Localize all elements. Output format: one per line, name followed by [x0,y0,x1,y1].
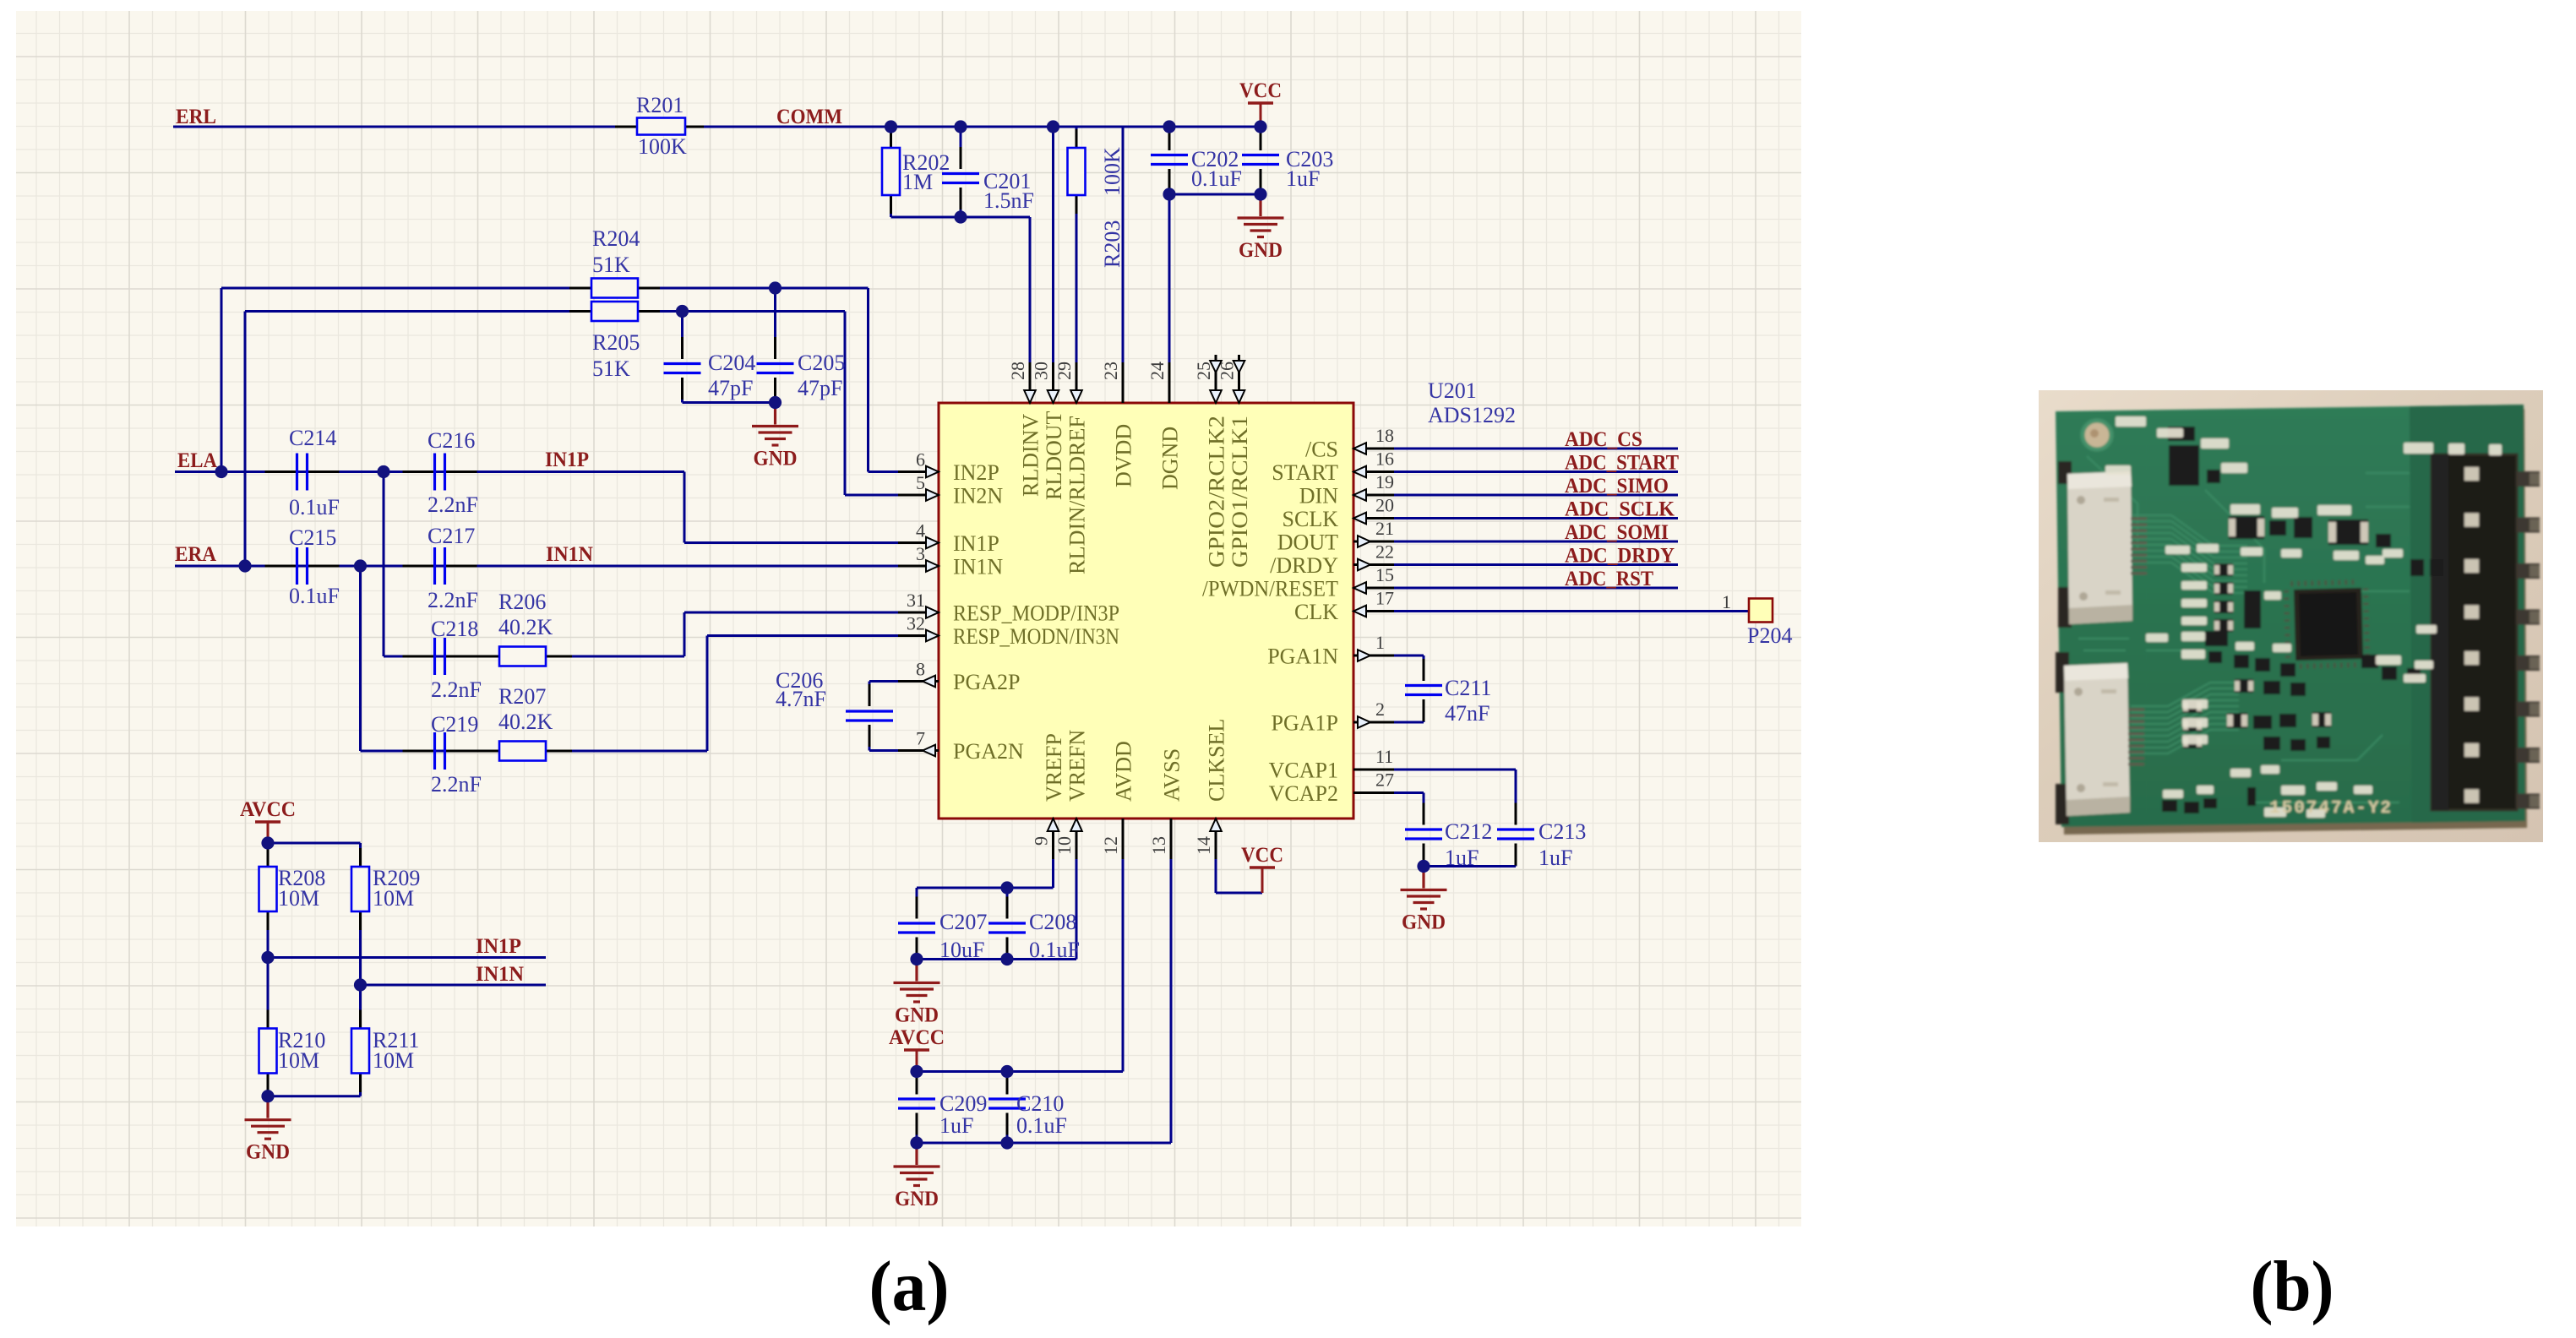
wire AVCC top link [268,842,361,845]
wire ADC_SIMO [1390,494,1678,497]
wire C202 to pin24 [1168,169,1171,403]
svg-text:31: 31 [907,590,925,611]
wire VREFP rail [917,887,1054,889]
wire C206 top lead [869,682,871,707]
resistor R203 100K [1068,148,1086,195]
resistor R202 1M [882,148,900,195]
mounting hole [2083,421,2111,449]
svg-text:VCC: VCC [1241,844,1283,867]
svg-text:40.2K: 40.2K [498,615,553,639]
wire VREFN rail [917,958,1076,960]
svg-text:1: 1 [1375,632,1385,653]
svg-text:1uF: 1uF [939,1113,973,1138]
wire C203 bottom lead [1260,169,1262,194]
wire pin14 drop [1215,819,1217,893]
wire ADC_SOMI [1390,541,1678,543]
svg-text:C219: C219 [431,712,478,737]
wire R204 drop to IN2P [867,288,869,472]
svg-text:C213: C213 [1539,819,1586,844]
FPC connector (top-left) [2058,461,2072,484]
svg-text:15: 15 [1375,564,1394,585]
resistor R205 51K [591,302,638,321]
wire C208 top lead [1006,888,1009,919]
svg-text:19: 19 [1375,471,1394,492]
wire pin7 entry [869,749,903,752]
svg-text:GND: GND [895,1004,939,1027]
svg-text:26: 26 [1217,362,1238,380]
resistor R206 40.2K [499,647,546,666]
svg-text:51K: 51K [592,356,630,381]
wire R210 bottom lead [267,1074,270,1096]
capacitor C202 0.1uF [1151,155,1188,165]
schematic sheet background [16,11,1801,1226]
ground GND (C209) [894,1143,940,1186]
ground GND (C204/C205) [752,403,798,446]
svg-text:25: 25 [1193,362,1214,380]
svg-text:11: 11 [1375,746,1393,767]
svg-text:1uF: 1uF [1539,846,1572,870]
svg-text:GND: GND [246,1141,290,1164]
wire C206 bottom lead [869,725,871,751]
wire R208 top lead [267,843,270,867]
svg-text:PGA2P: PGA2P [953,670,1020,694]
svg-text:SCLK: SCLK [1283,507,1339,531]
svg-text:0.1uF: 0.1uF [289,584,340,608]
wire pin11 to C213 [1390,769,1516,771]
svg-text:VCAP1: VCAP1 [1269,759,1338,783]
wire C205 bottom lead [774,378,776,403]
svg-text:DGND: DGND [1158,427,1183,490]
svg-text:ELA: ELA [177,449,217,472]
svg-text:0.1uF: 0.1uF [1191,166,1242,191]
wire pin8 entry [869,680,903,683]
svg-text:16: 16 [1375,449,1394,470]
svg-text:GPIO1/RCLK1: GPIO1/RCLK1 [1228,416,1252,568]
svg-text:ERL: ERL [176,106,216,128]
resistor R208 10M [259,867,277,911]
wire C213 top lead [1515,770,1517,825]
svg-text:40.2K: 40.2K [498,710,553,734]
svg-text:AVCC: AVCC [240,798,296,821]
svg-text:RLDOUT: RLDOUT [1042,411,1066,500]
capacitor C210 0.1uF [988,1099,1026,1108]
capacitor C215 0.1uF [297,547,308,585]
capacitor C214 0.1uF [297,454,308,491]
wire R208 bottom lead [267,911,270,958]
svg-text:IN1N: IN1N [546,543,593,566]
wire pin31 entry [684,612,903,614]
capacitor C219 2.2nF [435,732,445,770]
wire ADC_START [1390,470,1678,473]
wire C213 bottom lead [1515,844,1517,867]
svg-text:COMM: COMM [776,106,842,128]
main IC chip (on PCB) [2284,579,2371,670]
svg-text:0.1uF: 0.1uF [1016,1113,1067,1138]
svg-text:10uF: 10uF [939,938,984,962]
wire C204-C205 gnd link [683,401,776,404]
wire C201 top lead [960,127,962,169]
svg-text:1.5nF: 1.5nF [983,188,1034,213]
svg-text:(a): (a) [869,1247,950,1326]
svg-text:C218: C218 [431,617,478,641]
connector pad P204 [1749,599,1773,623]
svg-text:R206: R206 [498,590,546,614]
junction dots [885,120,897,133]
svg-text:RLDINV: RLDINV [1019,414,1043,497]
wire IN1N tap [361,984,547,987]
svg-text:ADC_SOMI: ADC_SOMI [1565,521,1669,544]
svg-text:GND: GND [1239,239,1283,262]
power VCC CLKSEL [1250,866,1275,868]
pin header (right) [2432,454,2517,810]
silkscreen markings [2105,416,2502,818]
svg-text:23: 23 [1100,362,1121,380]
svg-text:3: 3 [916,543,925,564]
wire R205 row right [638,310,845,313]
wire IN1P tap [268,956,546,959]
svg-text:GND: GND [895,1188,939,1210]
svg-text:C216: C216 [428,428,475,453]
svg-text:IN1P: IN1P [476,935,521,958]
wire R202 bottom [890,195,892,217]
svg-text:PGA2N: PGA2N [953,739,1024,764]
svg-text:R204: R204 [592,226,640,251]
svg-text:AVSS: AVSS [1160,748,1185,802]
wire C210 top lead [1006,1072,1009,1095]
svg-text:VCAP2: VCAP2 [1269,781,1338,806]
wire C210 bottom lead [1006,1113,1009,1144]
power AVCC (divider) [267,823,270,843]
svg-text:0.1uF: 0.1uF [1029,938,1080,962]
wire pin27 to C212 [1390,791,1424,794]
resistor R201 100K [637,118,685,135]
svg-text:IN1N: IN1N [476,963,524,986]
resistor R204 51K [591,279,638,298]
svg-text:47nF: 47nF [1445,701,1490,726]
wire C218 row [384,655,684,658]
wire C207 top lead [916,888,918,919]
svg-text:47pF: 47pF [708,376,753,400]
svg-text:ADC_DRDY: ADC_DRDY [1565,545,1675,568]
svg-text:C205: C205 [798,351,845,375]
svg-text:C211: C211 [1445,676,1491,700]
capacitor C208 0.1uF [988,923,1026,933]
wire R209 top lead [359,843,362,867]
svg-text:2.2nF: 2.2nF [431,772,482,797]
svg-text:10: 10 [1054,836,1075,855]
svg-text:(b): (b) [2251,1247,2334,1326]
svg-text:29: 29 [1054,362,1075,380]
svg-text:100K: 100K [638,134,687,159]
svg-text:14: 14 [1193,836,1214,855]
svg-text:10M: 10M [373,886,414,911]
wire pin28 drop [1029,217,1032,403]
wire CLK to P204 [1390,610,1749,612]
svg-text:10M: 10M [373,1048,414,1073]
wire C209 top lead [916,1072,918,1095]
wire C211 top lead [1423,655,1425,681]
wire R202 top [890,127,892,148]
resistor R209 10M [351,867,369,911]
svg-text:2.2nF: 2.2nF [428,588,478,612]
svg-text:AVDD: AVDD [1112,741,1136,802]
svg-text:RESP_MODP/IN3P: RESP_MODP/IN3P [953,601,1119,626]
svg-text:R203: R203 [1100,220,1125,268]
wire pin32 entry [707,634,903,637]
power VCC top [1248,101,1273,104]
svg-text:2.2nF: 2.2nF [428,492,478,517]
wire pin12 drop [1122,819,1125,1072]
wire ADC_SCLK [1390,517,1678,519]
wire pin6 entry [869,470,904,473]
svg-text:18: 18 [1375,425,1394,446]
wire C201 bottom lead [960,188,962,217]
wire C212 top lead [1423,793,1425,825]
IC pin stubs [898,355,1394,859]
wire IN1P to pin4 [684,541,903,544]
wire pin23 drop [1122,127,1125,403]
wire R209 bottom lead [359,911,362,985]
svg-text:C217: C217 [428,524,475,548]
wire R207 rise to pin32 [706,636,709,752]
svg-text:5: 5 [916,472,925,493]
wire C212 bottom lead [1423,844,1425,867]
svg-text:DOUT: DOUT [1277,530,1338,555]
svg-text:IN1N: IN1N [953,555,1003,579]
svg-text:12: 12 [1100,836,1121,855]
resistor R211 10M [351,1029,369,1074]
svg-text:/PWDN/RESET: /PWDN/RESET [1202,577,1338,601]
svg-text:START: START [1272,460,1338,485]
wire AVSS rail [917,1142,1171,1145]
svg-text:7: 7 [916,728,925,749]
svg-text:30: 30 [1031,362,1052,380]
capacitor C205 47pF [757,364,794,373]
svg-text:/DRDY: /DRDY [1270,553,1338,578]
wire R205 drop to IN2N [844,312,847,496]
svg-text:ADC_RST: ADC_RST [1565,568,1653,590]
svg-text:GND: GND [1402,911,1446,934]
svg-text:32: 32 [907,613,925,634]
FPC connector (bottom-left) [2056,652,2069,693]
svg-text:10M: 10M [278,886,319,911]
wire ADC_RST [1390,587,1678,590]
capacitor C203 1uF [1242,155,1279,165]
svg-text:1uF: 1uF [1286,166,1320,191]
svg-text:P204: P204 [1747,623,1792,648]
power AVCC (decoupling) [916,1051,918,1072]
capacitor C207 10uF [898,923,935,933]
svg-text:8: 8 [916,659,925,680]
wire C211 bottom lead [1423,699,1425,722]
wire ELA drop to C218 [383,472,385,657]
wire ELA row [175,470,684,473]
svg-text:VREFP: VREFP [1042,733,1066,802]
svg-text:RESP_MODN/IN3N: RESP_MODN/IN3N [953,624,1119,649]
svg-text:4.7nF: 4.7nF [776,687,826,711]
wire R206 rise to pin31 [683,612,686,656]
svg-text:ERA: ERA [175,543,216,566]
power AVCC divider [255,820,280,823]
capacitor C217 2.2nF [435,547,445,585]
wire R203 to pin29 [1076,195,1078,403]
capacitor C212 1uF [1405,829,1442,839]
capacitor C201 1.5nF [942,174,979,183]
wire ADC_CS [1390,448,1678,450]
wire C207 bottom lead [916,938,918,960]
svg-text:VREFN: VREFN [1065,730,1090,802]
svg-text:C209: C209 [939,1091,987,1116]
svg-text:IN1P: IN1P [545,449,589,471]
wire pin10 drop [1076,819,1078,960]
wire C219 row [361,750,708,753]
wire R211 bottom lead [359,1074,362,1096]
svg-text:150747A-Y2: 150747A-Y2 [2269,799,2393,819]
wire C209 bottom lead [916,1113,918,1144]
svg-text:AVCC: AVCC [889,1026,945,1049]
wire R211 top lead [359,985,362,1029]
svg-text:C204: C204 [708,351,755,375]
wire ERL-COMM-VCC rail [173,126,1261,128]
wire C202 top lead [1168,127,1171,150]
svg-text:ADC_START: ADC_START [1565,452,1679,475]
component lead segments (black) [265,127,1517,1135]
wire pin2 to C211 [1390,721,1424,724]
ground GND (C212/C213) [1401,867,1447,910]
svg-text:17: 17 [1375,588,1394,609]
svg-text:CLKSEL: CLKSEL [1205,719,1229,802]
ground GND (divider) [245,1096,291,1139]
wire R204 row left [221,287,591,290]
svg-text:IN2P: IN2P [953,460,999,485]
svg-text:CLK: CLK [1294,600,1338,624]
wire C213-C212 link [1424,865,1516,868]
capacitor C206 4.7nF [846,711,893,721]
wire pin9 drop [1052,819,1054,888]
svg-text:DIN: DIN [1299,484,1338,509]
PCB board [2058,409,2527,835]
wire C202-C203 gnd link [1169,193,1261,196]
svg-text:0.1uF: 0.1uF [289,495,340,519]
wire C204 bottom lead [681,378,683,403]
svg-text:C214: C214 [289,426,336,450]
wire ERA-IN1N row [175,565,903,568]
svg-text:24: 24 [1146,362,1168,380]
svg-text:DVDD: DVDD [1112,424,1136,487]
wire ELA up to R204 [221,288,223,472]
net wires [173,127,1749,1143]
wire R205 row left [245,310,591,313]
wire C203 top lead [1260,127,1262,150]
svg-text:R205: R205 [592,330,640,355]
wire ERA up to R205 [244,312,247,567]
wire R202/C201 to pin28 [891,216,1031,219]
svg-text:IN1P: IN1P [953,531,999,556]
wire gnd link R210-R211 [268,1095,361,1097]
svg-text:21: 21 [1375,518,1394,539]
svg-text:R207: R207 [498,684,546,709]
svg-text:ADC_CS: ADC_CS [1565,428,1642,451]
svg-text:C207: C207 [939,910,987,934]
wire AVCC rail [917,1070,1123,1073]
svg-text:6: 6 [916,449,925,470]
svg-text:1M: 1M [902,170,933,194]
wire pin30 drop [1052,127,1054,403]
op-amp U201 ADS1292 (IC body) [939,403,1353,819]
svg-text:IN2N: IN2N [953,484,1003,509]
capacitor C211 47nF [1405,686,1442,695]
svg-text:4: 4 [916,520,925,541]
wire C205 top lead [774,288,776,359]
power VCC (top rail) [1260,104,1262,127]
wire R203 top [1076,127,1078,148]
svg-text:100K: 100K [1100,147,1125,196]
svg-text:VCC: VCC [1239,79,1282,102]
svg-text:27: 27 [1375,770,1394,791]
power VCC (CLKSEL) [1261,868,1264,893]
wire R210 top lead [267,958,270,1029]
capacitor C218 2.2nF [435,638,445,675]
power AVCC decoupling [904,1048,929,1051]
svg-text:R201: R201 [636,93,683,117]
svg-text:GPIO2/RCLK2: GPIO2/RCLK2 [1205,416,1229,568]
wire pin5 entry [845,494,903,497]
capacitor C204 47pF [664,364,701,373]
svg-text:PGA1P: PGA1P [1272,711,1338,736]
svg-text:2: 2 [1375,699,1385,720]
svg-text:28: 28 [1007,362,1028,380]
svg-text:U201: U201 [1428,378,1477,403]
capacitor C216 2.2nF [435,454,445,491]
svg-text:C215: C215 [289,525,336,550]
svg-text:C212: C212 [1445,819,1492,844]
IC pin arrows [926,466,939,478]
svg-text:9: 9 [1031,836,1052,846]
wire C208 bottom lead [1006,938,1009,960]
wire IN1P step down [683,472,686,543]
svg-text:PGA1N: PGA1N [1267,645,1338,669]
wire R204 row right [638,287,869,290]
svg-text:10M: 10M [278,1048,319,1073]
ground GND (C207) [894,960,940,1003]
capacitor C209 1uF [898,1099,935,1108]
svg-text:ADC_SIMO: ADC_SIMO [1565,475,1669,498]
wire pin14 to VCC [1216,892,1262,895]
svg-text:47pF: 47pF [798,376,842,400]
svg-text:51K: 51K [592,253,630,277]
svg-text:/CS: /CS [1305,438,1338,462]
resistor R210 10M [259,1029,277,1074]
wire C204 top lead [681,312,683,360]
wire ERA drop to C219 [359,566,362,751]
svg-text:20: 20 [1375,495,1394,516]
resistor R207 40.2K [499,742,546,761]
svg-text:ADS1292: ADS1292 [1428,403,1516,427]
ground GND (C202/C203) [1238,194,1284,237]
svg-text:1: 1 [1722,591,1731,612]
passive components on PCB [2162,427,2443,813]
svg-text:1uF: 1uF [1445,846,1479,870]
svg-text:RLDIN/RLDREF: RLDIN/RLDREF [1065,416,1090,574]
capacitor C213 1uF [1497,829,1534,839]
wire pin1 to C211 [1390,655,1424,657]
wire pin13 drop [1170,819,1173,1143]
wire ADC_DRDY [1390,563,1678,566]
svg-text:13: 13 [1148,836,1169,855]
svg-text:GND: GND [754,448,798,470]
svg-text:ADC_SCLK: ADC_SCLK [1565,498,1675,521]
svg-text:C208: C208 [1029,910,1076,934]
